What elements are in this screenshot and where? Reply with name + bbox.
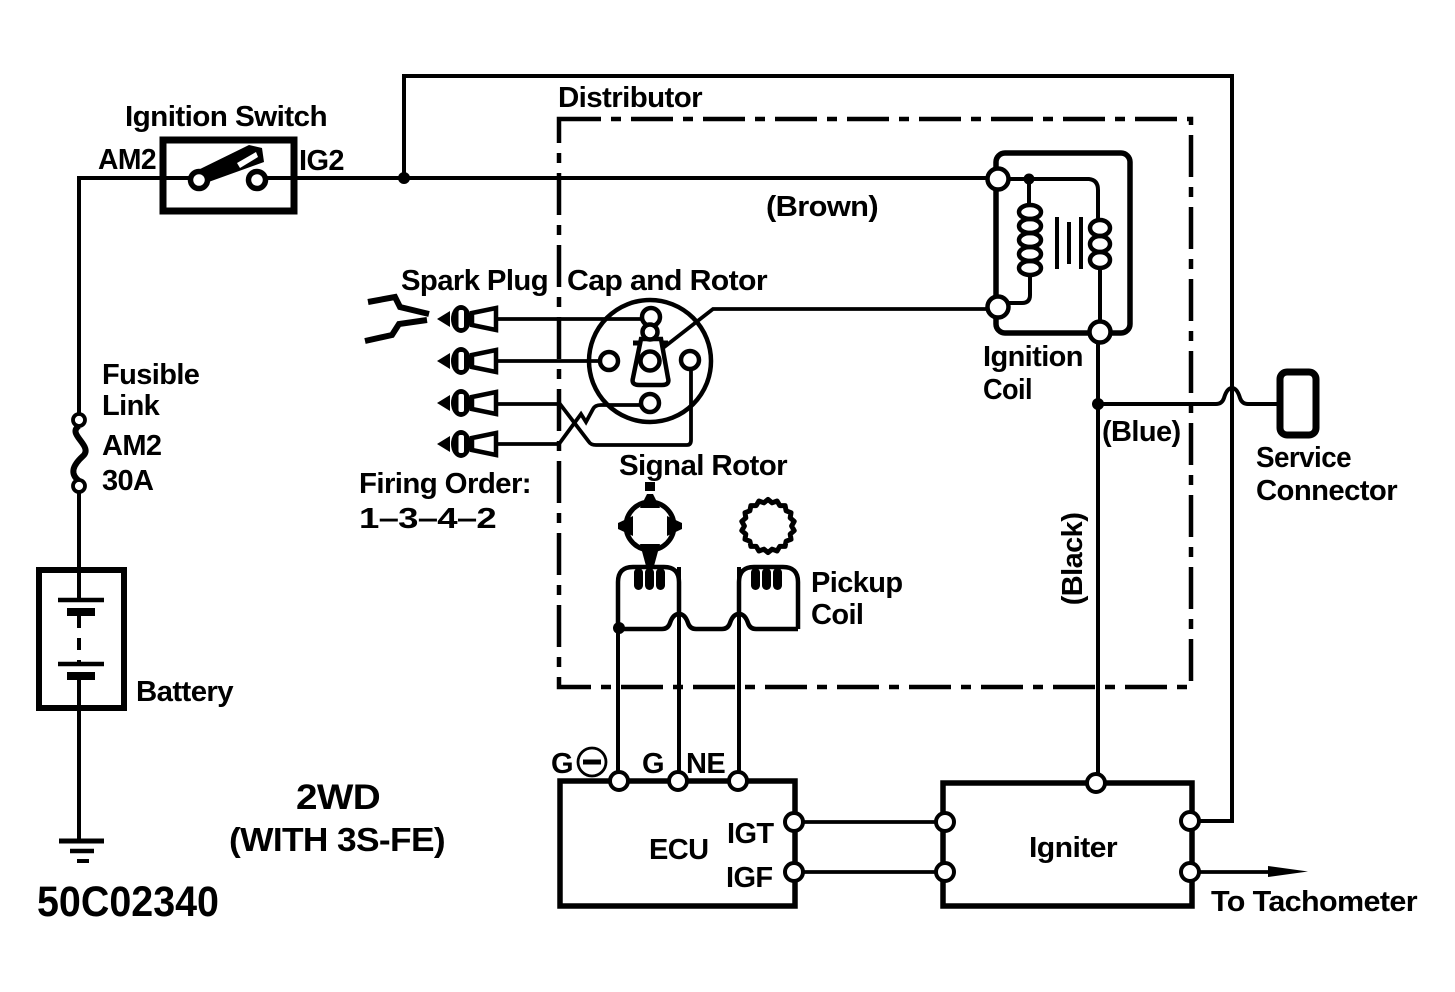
wire: plug 2 to cap left contact — [497, 359, 600, 363]
wire: NE lead to ECU — [737, 567, 741, 772]
svg-text:Connector: Connector — [1256, 475, 1397, 507]
svg-text:2WD: 2WD — [296, 778, 380, 817]
svg-text:To Tachometer: To Tachometer — [1211, 886, 1417, 918]
wire: pickup ground bus with hops — [619, 614, 798, 629]
svg-text:Cap and Rotor: Cap and Rotor — [567, 265, 767, 297]
svg-text:Fusible: Fusible — [102, 359, 200, 391]
cap bottom contact — [641, 394, 659, 412]
wire: coil minus down to igniter (Black) — [1096, 343, 1100, 773]
wire: G- lead to ECU — [616, 628, 620, 772]
cap left contact — [600, 352, 618, 370]
ECU terminal G- — [610, 772, 628, 790]
wire: plug 3 down to lower bus, to cap right contact — [497, 370, 691, 445]
spark plug 1 — [437, 305, 496, 333]
wire: top loop from junction above ignition switch to igniter right terminal — [404, 76, 1232, 821]
spark plug 3 — [437, 389, 496, 417]
igniter terminal IGT — [936, 813, 954, 831]
spark plug 4 — [437, 430, 496, 458]
cap right contact — [681, 351, 699, 369]
node: blue wire tap — [1092, 398, 1104, 410]
wire: G lead to ECU — [677, 567, 681, 772]
svg-text:(WITH 3S-FE): (WITH 3S-FE) — [229, 821, 445, 858]
distributor cap — [589, 300, 711, 422]
distributor dashed boundary — [559, 119, 1191, 687]
ECU terminal G — [669, 772, 687, 790]
rotor body — [633, 325, 669, 386]
cap top contact — [642, 308, 660, 326]
wire: fusible link to battery — [77, 492, 81, 571]
svg-text:Signal Rotor: Signal Rotor — [619, 450, 787, 482]
wire: IGT ECU to igniter — [803, 820, 936, 824]
ignition switch contact terminals — [191, 172, 208, 189]
svg-text:(Brown): (Brown) — [766, 191, 878, 223]
svg-text:Spark Plug: Spark Plug — [401, 265, 548, 297]
wire: plug 1 to cap top contact — [497, 317, 642, 321]
svg-text:AM2: AM2 — [98, 144, 156, 176]
svg-text:ECU: ECU — [649, 834, 708, 866]
battery B1 — [39, 570, 124, 708]
svg-text:AM2: AM2 — [102, 430, 161, 462]
igniter terminal IGF — [936, 863, 954, 881]
service connector — [1280, 372, 1316, 435]
igniter terminal tach — [1181, 863, 1199, 881]
ignition coil T1 — [996, 153, 1130, 333]
wire: main feed AM2-IG2 to ignition coil — [79, 178, 191, 415]
svg-text:Igniter: Igniter — [1029, 832, 1117, 864]
ECU terminal NE — [729, 772, 747, 790]
fusible link element — [73, 426, 85, 481]
node: pickup bus junction — [613, 622, 625, 634]
svg-text:IGF: IGF — [726, 862, 773, 894]
coil terminal: +B — [988, 169, 1009, 190]
coil terminal: secondary out — [988, 297, 1009, 318]
ECU box — [560, 781, 795, 906]
wire: plug 4 up over crossing to cap bottom contact — [497, 405, 641, 444]
svg-text:(Black): (Black) — [1057, 513, 1089, 606]
wire: battery to ground — [77, 708, 81, 841]
svg-text:Link: Link — [102, 390, 161, 422]
node: junction dot on main feed wire — [398, 172, 410, 184]
svg-text:Ignition: Ignition — [983, 341, 1083, 373]
fusible link top terminal — [73, 414, 85, 426]
spark plug 2 — [437, 347, 496, 375]
svg-text:(Blue): (Blue) — [1102, 416, 1181, 448]
signal rotor (G pickup) — [618, 482, 682, 566]
svg-text:Battery: Battery — [136, 676, 233, 708]
pickup coil left (G) — [618, 567, 679, 628]
svg-text:Ignition Switch: Ignition Switch — [125, 101, 327, 133]
wire: ignition coil secondary to rotor center — [663, 309, 988, 348]
svg-text:NE: NE — [686, 748, 725, 780]
svg-text:30A: 30A — [102, 465, 154, 497]
svg-text:Coil: Coil — [811, 599, 863, 631]
igniter box — [943, 783, 1192, 906]
label: G minus terminal — [551, 748, 606, 780]
svg-text:Firing Order:: Firing Order: — [359, 468, 531, 500]
fusible link bottom terminal — [73, 480, 85, 492]
ECU terminal IGT — [785, 813, 803, 831]
svg-text:Coil: Coil — [983, 374, 1032, 406]
svg-text:G: G — [551, 748, 573, 780]
igniter terminal +B — [1181, 812, 1199, 830]
svg-text:50C02340: 50C02340 — [37, 878, 219, 926]
wire: igniter to tachometer with arrow — [1199, 866, 1308, 877]
spark symbol at plug 1 — [368, 297, 429, 314]
wire: (Blue) to service connector with hop — [1098, 388, 1279, 404]
node: coil primary tap — [1024, 174, 1035, 185]
svg-text:Service: Service — [1256, 442, 1351, 474]
svg-text:Pickup: Pickup — [811, 567, 903, 599]
signal rotor (NE pickup, toothed) — [742, 499, 794, 552]
svg-text:1–3–4–2: 1–3–4–2 — [359, 503, 496, 535]
svg-text:IG2: IG2 — [299, 145, 344, 177]
coil terminal: minus — [1090, 322, 1111, 343]
svg-text:IGT: IGT — [727, 818, 774, 850]
svg-text:G: G — [642, 748, 664, 780]
wire: IGF ECU to igniter — [803, 870, 936, 874]
ignition switch box — [163, 140, 294, 211]
ignition switch lever — [196, 145, 264, 184]
ground — [59, 839, 104, 844]
pickup coil right (NE) — [739, 567, 798, 629]
svg-text:Distributor: Distributor — [558, 82, 702, 114]
igniter terminal top — [1087, 774, 1105, 792]
ECU terminal IGF — [785, 863, 803, 881]
